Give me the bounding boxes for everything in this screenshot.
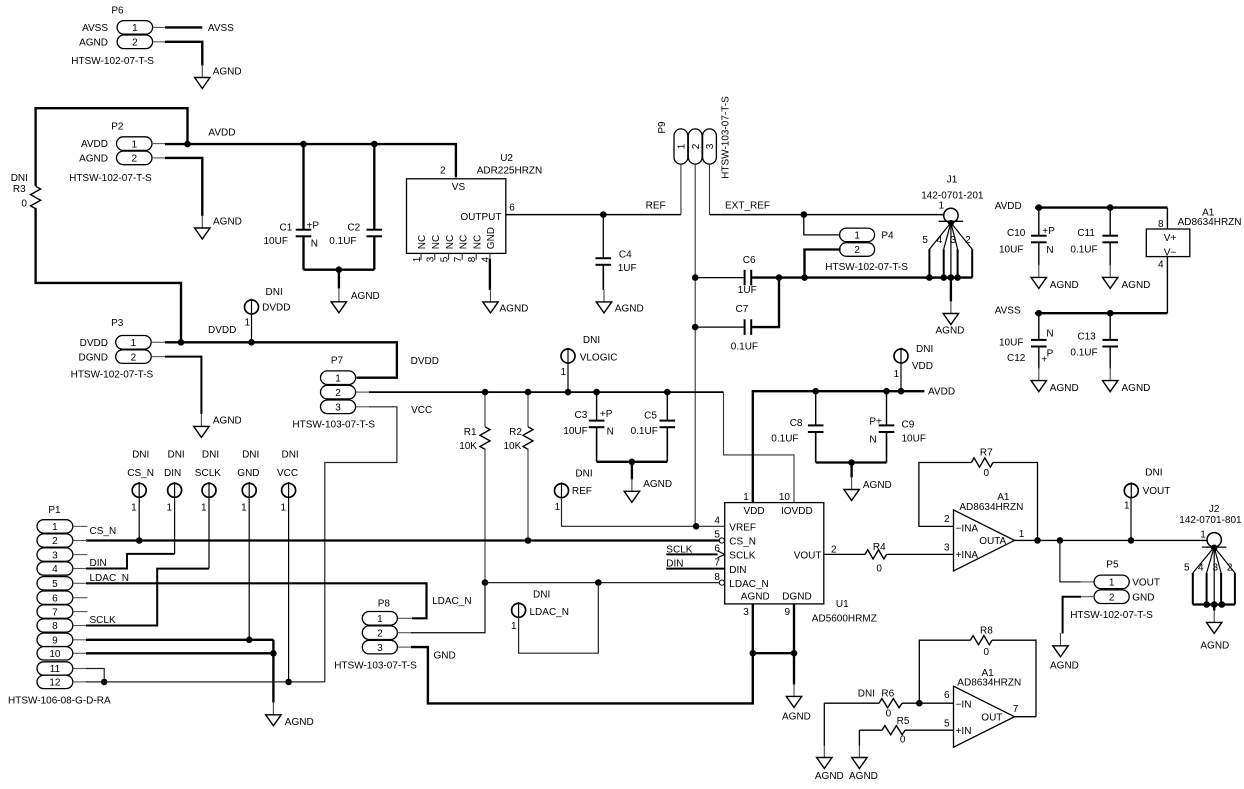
svg-text:DNI: DNI (132, 450, 149, 461)
svg-text:CS_N: CS_N (729, 537, 756, 548)
svg-text:DNI: DNI (167, 450, 184, 461)
svg-text:C1: C1 (280, 222, 293, 233)
svg-text:C4: C4 (619, 249, 632, 260)
svg-text:P7: P7 (331, 355, 344, 366)
ground AGND (P2) (201, 215, 203, 228)
resistor R4 0 (865, 542, 887, 575)
svg-text:10: 10 (49, 649, 61, 660)
junction R7/out (1034, 537, 1041, 544)
svg-text:HTSW-103-07-T-S: HTSW-103-07-T-S (721, 96, 732, 179)
svg-text:1: 1 (281, 502, 287, 513)
svg-text:HTSW-102-07-T-S: HTSW-102-07-T-S (71, 369, 154, 380)
svg-text:VS: VS (452, 182, 466, 193)
svg-text:VOUT: VOUT (794, 551, 822, 562)
wire P3 pin2 to ground (152, 356, 166, 358)
svg-text:NC: NC (431, 235, 442, 249)
svg-text:NC: NC (445, 235, 456, 249)
J1 bus junctions (926, 274, 933, 281)
wire U1 VOUT to R4 (824, 553, 865, 555)
test point REF (DNI) (554, 469, 592, 513)
svg-text:AGND: AGND (213, 67, 242, 78)
svg-text:5: 5 (439, 256, 450, 262)
svg-text:2: 2 (965, 235, 971, 246)
capacitor C7 0.1UF (695, 278, 779, 353)
svg-text:C5: C5 (644, 410, 657, 421)
svg-text:DVDD: DVDD (80, 338, 108, 349)
svg-text:8: 8 (467, 256, 478, 262)
svg-text:AGND: AGND (1122, 383, 1151, 394)
ground AGND (C1 C2) (338, 289, 340, 302)
wire U1 DGND pin (793, 604, 795, 653)
connector P5 (1070, 559, 1160, 621)
svg-text:VDD: VDD (912, 361, 933, 372)
svg-text:+P: +P (307, 220, 320, 231)
svg-text:AGND: AGND (351, 291, 380, 302)
junction REF/C6 (692, 274, 699, 281)
svg-text:C2: C2 (347, 222, 360, 233)
wire P9 pin2 down (REF to VREF) (694, 164, 696, 526)
svg-text:CS_N: CS_N (90, 526, 117, 537)
wire VCC TP stub (288, 497, 290, 682)
svg-text:9: 9 (784, 607, 790, 618)
svg-text:DNI: DNI (11, 173, 28, 184)
svg-text:N: N (1046, 245, 1053, 256)
svg-text:3: 3 (705, 143, 716, 149)
resistor R5 0 (859, 716, 953, 746)
svg-text:HTSW-102-07-T-S: HTSW-102-07-T-S (825, 262, 908, 273)
svg-text:C8: C8 (790, 418, 803, 429)
svg-text:1: 1 (167, 502, 173, 513)
svg-text:NC: NC (458, 235, 469, 249)
svg-text:8: 8 (52, 621, 58, 632)
wire VREF to U1 (696, 525, 725, 527)
junction C1/AVDD (300, 141, 307, 148)
wire CS_N TP stub (138, 497, 140, 540)
svg-text:1: 1 (335, 373, 341, 384)
connector P2 (69, 121, 152, 184)
ground AGND (C3 C5) (631, 478, 633, 491)
capacitor C2 0.1UF (329, 144, 382, 270)
svg-text:1: 1 (677, 143, 688, 149)
svg-text:0.1UF: 0.1UF (1070, 244, 1097, 255)
svg-text:VOUT: VOUT (1143, 486, 1171, 497)
svg-text:DGND: DGND (79, 352, 108, 363)
svg-text:3: 3 (743, 607, 749, 618)
svg-text:0.1UF: 0.1UF (631, 426, 658, 437)
connector J1 142-0701-201 (921, 175, 984, 223)
svg-text:C12: C12 (1007, 353, 1026, 364)
wire R5 to ground (858, 730, 860, 745)
connector P7 (292, 355, 375, 430)
svg-text:CS_N: CS_N (127, 468, 154, 479)
wire P5 pin1 to output (1060, 540, 1081, 582)
svg-text:R2: R2 (509, 427, 522, 438)
wire P8 pin3 GND to U1 ground (398, 646, 412, 648)
test point VLOGIC (DNI) (560, 335, 617, 392)
svg-text:C13: C13 (1077, 332, 1096, 343)
wire P1 pin11 (86, 669, 104, 682)
U1 LDAC_N pin bubble (719, 580, 724, 585)
junction R1/LDAC_N (482, 579, 489, 586)
wire P5 pin2 to ground (1080, 596, 1095, 598)
wire C8/C9 ground bus (816, 461, 887, 463)
svg-text:0.1UF: 0.1UF (771, 434, 798, 445)
ground AGND (C13) (1109, 368, 1111, 381)
svg-text:142-0701-201: 142-0701-201 (921, 190, 984, 201)
svg-text:1: 1 (938, 200, 944, 211)
wire LDAC_N TP loop (519, 583, 599, 654)
svg-text:3: 3 (52, 550, 58, 561)
svg-text:J1: J1 (947, 175, 958, 186)
ground AGND (P5) (1060, 633, 1062, 646)
svg-text:6: 6 (52, 593, 58, 604)
svg-text:1: 1 (131, 502, 137, 513)
svg-text:J2: J2 (1209, 504, 1220, 515)
wire LDAC_N to U1 pin8 (485, 582, 719, 584)
connector P1 HTSW-106-08-G-D-RA (8, 505, 111, 707)
junction pin10 gnd (270, 650, 277, 657)
junction C9/AVDD (883, 388, 890, 395)
U2 NC pins 1,3,5,7,8 and GND pin 4 (412, 227, 497, 262)
wire U1 AGND pin (752, 604, 754, 653)
connector P8 (334, 598, 417, 671)
connector P6 (71, 6, 154, 67)
wire OUT to R8 (1015, 716, 1037, 718)
svg-text:AD8634HRZN: AD8634HRZN (959, 502, 1023, 513)
svg-text:−INA: −INA (956, 523, 979, 534)
junction EXT_REF/P4 (801, 211, 808, 218)
svg-text:1: 1 (1200, 529, 1206, 540)
svg-text:AGND: AGND (863, 480, 892, 491)
J1 fan wires to pins 5,4,3,2 (922, 220, 972, 278)
svg-text:N: N (1046, 329, 1053, 340)
wire P7 pin3 VCC (356, 406, 370, 408)
svg-text:9: 9 (52, 636, 58, 647)
svg-text:AGND: AGND (285, 717, 314, 728)
op-amp reference U2 ADR225HRZN (407, 153, 543, 254)
svg-text:0: 0 (984, 647, 990, 658)
junction C7/bus (776, 274, 783, 281)
svg-text:VCC: VCC (277, 468, 298, 479)
svg-text:142-0701-801: 142-0701-801 (1179, 515, 1242, 526)
svg-text:1: 1 (893, 369, 899, 380)
svg-text:U2: U2 (500, 153, 513, 164)
svg-text:0: 0 (876, 564, 882, 575)
connector P9 (3-pin vertical) (657, 96, 732, 179)
op-amp A1 AD8634HRZN OUTA (944, 492, 1025, 571)
svg-text:SCLK: SCLK (729, 551, 755, 562)
svg-text:3: 3 (951, 235, 957, 246)
test point VDD (DNI) (893, 344, 933, 391)
svg-text:AVSS: AVSS (995, 305, 1021, 316)
svg-text:−IN: −IN (956, 700, 972, 711)
svg-text:DVDD: DVDD (208, 325, 236, 336)
svg-text:V−: V− (1164, 247, 1177, 258)
svg-text:10UF: 10UF (902, 434, 926, 445)
junction VDD TP (898, 388, 905, 395)
svg-text:10UF: 10UF (563, 426, 587, 437)
svg-text:GND: GND (1132, 592, 1154, 603)
resistor R3 (11, 173, 41, 210)
junction LDAC_N TP tie (595, 579, 602, 586)
svg-text:7: 7 (714, 558, 720, 569)
svg-text:2: 2 (691, 143, 702, 149)
svg-text:5: 5 (922, 235, 928, 246)
ground AGND (P6) (201, 65, 203, 78)
svg-text:R1: R1 (464, 427, 477, 438)
wire P6 pin1 to AVSS (153, 26, 166, 28)
svg-text:4: 4 (1158, 260, 1164, 271)
svg-text:1: 1 (412, 256, 423, 262)
svg-text:P+: P+ (869, 417, 882, 428)
svg-text:P4: P4 (881, 231, 894, 242)
resistor R2 10K (504, 392, 534, 540)
svg-text:R8: R8 (980, 625, 993, 636)
wire P1 gnd drop (272, 640, 274, 703)
wire REF TP to VREF (562, 498, 697, 527)
J2 fan wires to pins 5,4,3,2 (1184, 547, 1235, 604)
svg-text:VCC: VCC (411, 405, 432, 416)
svg-text:2: 2 (131, 352, 137, 363)
capacitor C6 1UF (695, 255, 757, 296)
test point DVDD (DNI) (244, 287, 290, 342)
svg-text:7: 7 (453, 256, 464, 262)
svg-text:6: 6 (944, 690, 950, 701)
svg-text:AGND: AGND (79, 38, 108, 49)
svg-text:8: 8 (1158, 219, 1164, 230)
svg-text:DNI: DNI (575, 469, 592, 480)
junction P4/bus (801, 274, 808, 281)
svg-text:P5: P5 (1106, 559, 1119, 570)
wire P4 pin2 to ground bus (805, 250, 841, 278)
svg-text:LDAC_N: LDAC_N (729, 579, 768, 590)
svg-text:2: 2 (335, 388, 341, 399)
wire P1 pin10 (86, 652, 273, 654)
wire OUTA output to J2 (1015, 539, 1207, 541)
svg-text:1: 1 (1109, 578, 1115, 589)
wire P3 pin1 / DVDD rail (152, 341, 166, 343)
svg-text:HTSW-103-07-T-S: HTSW-103-07-T-S (334, 660, 417, 671)
svg-text:+P: +P (1042, 226, 1055, 237)
svg-text:1: 1 (560, 367, 566, 378)
svg-text:DIN: DIN (90, 558, 107, 569)
svg-text:+P: +P (600, 409, 613, 420)
svg-text:AGND: AGND (500, 303, 529, 314)
svg-text:AGND: AGND (936, 325, 965, 336)
svg-text:REF: REF (572, 486, 592, 497)
svg-text:AD5600HRMZ: AD5600HRMZ (812, 613, 877, 624)
wire P1 pin12 VCC (86, 681, 325, 683)
svg-text:DNI: DNI (583, 335, 600, 346)
svg-text:2: 2 (831, 544, 837, 555)
svg-text:+: + (1041, 355, 1047, 366)
wire P9 pin3 down to EXT_REF (709, 164, 711, 215)
ground AGND (P3) (200, 413, 202, 426)
ground AGND (C11) (1109, 264, 1111, 277)
svg-text:R7: R7 (980, 447, 993, 458)
test point VOUT (DNI) (1124, 467, 1170, 540)
svg-text:R5: R5 (897, 716, 910, 727)
test point GND (DNI) (237, 450, 259, 514)
wire U2 GND pin to ground (489, 259, 491, 290)
svg-text:+IN: +IN (956, 726, 972, 737)
ground AGND (P1) (272, 702, 274, 715)
svg-text:AGND: AGND (643, 479, 672, 490)
ground AGND (U1) (793, 683, 795, 696)
svg-text:3: 3 (426, 256, 437, 262)
svg-text:12: 12 (49, 678, 61, 689)
svg-text:1: 1 (132, 23, 138, 34)
svg-text:VLOGIC: VLOGIC (580, 353, 618, 364)
svg-text:0: 0 (984, 468, 990, 479)
svg-text:2: 2 (1227, 563, 1233, 574)
svg-text:EXT_REF: EXT_REF (725, 200, 770, 211)
svg-text:0.1UF: 0.1UF (1070, 348, 1097, 359)
wire P4 pin1 to EXT_REF (804, 215, 840, 235)
svg-text:5: 5 (52, 579, 58, 590)
junction J1 pin1 (948, 220, 954, 226)
wire J2 to ground (1213, 605, 1215, 611)
svg-text:1: 1 (131, 338, 137, 349)
svg-text:3: 3 (1212, 563, 1218, 574)
connector P3 (71, 318, 154, 381)
svg-text:U1: U1 (836, 599, 849, 610)
wire AVDD rail to U1 VDD (753, 391, 925, 502)
svg-text:N: N (311, 239, 318, 250)
svg-text:2: 2 (854, 245, 860, 256)
svg-text:2: 2 (132, 38, 138, 49)
connector P4 (825, 228, 908, 273)
svg-text:3: 3 (944, 542, 950, 553)
DAC U1 AD5600HRMZ (714, 492, 876, 625)
svg-text:AGND: AGND (741, 592, 770, 603)
svg-text:AGND: AGND (1050, 661, 1079, 672)
svg-text:LDAC_N: LDAC_N (530, 607, 569, 618)
svg-text:1: 1 (244, 317, 250, 328)
ground AGND (J2) (1213, 610, 1215, 622)
wire CS_N from P1 pin2 (86, 539, 719, 541)
junction GND TP (246, 637, 253, 644)
svg-text:AVSS: AVSS (208, 23, 234, 34)
junction pin11/pin12 (101, 679, 108, 686)
ground AGND (C8 C9) (851, 477, 853, 490)
ground AGND (C4) (603, 289, 605, 302)
wire J2 ground bus (1193, 603, 1235, 605)
svg-text:P: P (1047, 349, 1054, 360)
svg-text:P1: P1 (48, 505, 61, 516)
resistor R6 0 (DNI) (824, 689, 953, 720)
junction C8C9 gnd (848, 459, 855, 466)
junction C1C2 gnd (336, 266, 343, 273)
capacitor C12 10UF (999, 313, 1054, 368)
svg-text:1: 1 (854, 231, 860, 242)
svg-text:C11: C11 (1077, 228, 1095, 239)
junction C2/AVDD (371, 141, 378, 148)
svg-text:NC: NC (472, 235, 483, 249)
test point LDAC_N (DNI) (511, 590, 569, 632)
svg-text:AVSS: AVSS (82, 23, 108, 34)
svg-text:C9: C9 (902, 420, 915, 431)
svg-text:C10: C10 (1007, 228, 1026, 239)
svg-text:0: 0 (886, 709, 892, 720)
wire P1 pin4 DIN to TP (86, 554, 175, 569)
svg-text:LDAC_N: LDAC_N (432, 596, 471, 607)
capacitor C11 0.1UF (1070, 208, 1118, 266)
svg-text:1: 1 (554, 502, 560, 513)
svg-text:10UF: 10UF (999, 338, 1023, 349)
svg-text:10: 10 (779, 492, 791, 503)
wire R6 to ground (823, 703, 825, 745)
svg-text:4: 4 (714, 515, 720, 526)
svg-text:0.1UF: 0.1UF (731, 341, 758, 352)
junction R2/VLOGIC (525, 389, 532, 396)
svg-text:DNI: DNI (281, 450, 298, 461)
junction P5/out (1057, 537, 1064, 544)
U1 CS_N pin bubble (719, 538, 724, 543)
svg-text:4: 4 (937, 235, 943, 246)
junction VLOGIC TP (565, 389, 572, 396)
svg-text:7: 7 (1013, 704, 1019, 715)
svg-text:7: 7 (52, 607, 58, 618)
ground AGND (C12) (1038, 368, 1040, 381)
svg-text:R3: R3 (13, 184, 26, 195)
svg-text:DGND: DGND (782, 592, 811, 603)
svg-text:3: 3 (335, 403, 341, 414)
wire U2 OUTPUT / REF net (506, 214, 681, 216)
svg-text:5: 5 (1184, 563, 1190, 574)
svg-text:2: 2 (944, 514, 950, 525)
junction C3C5 gnd (629, 459, 636, 466)
svg-text:SCLK: SCLK (195, 468, 221, 479)
wire U1 ground bus (753, 652, 794, 654)
wire P9 pin1 down to REF (680, 164, 682, 215)
wire C3/C5 ground bus (597, 461, 668, 463)
wire P1 pin5 LDAC_N (86, 583, 427, 618)
svg-text:P8: P8 (378, 598, 391, 609)
svg-text:DNI: DNI (202, 450, 219, 461)
svg-text:AGND: AGND (213, 217, 242, 228)
svg-text:1UF: 1UF (738, 285, 757, 296)
svg-text:N: N (869, 435, 876, 446)
svg-text:1: 1 (377, 614, 383, 625)
svg-text:VOUT: VOUT (1132, 578, 1160, 589)
svg-text:DIN: DIN (729, 565, 746, 576)
wire EXT_REF ground bus (751, 276, 972, 278)
svg-text:1: 1 (743, 492, 749, 503)
svg-text:1: 1 (1019, 529, 1025, 540)
svg-text:AVDD: AVDD (208, 127, 235, 138)
wire P7 pin2 VLOGIC rail (356, 391, 370, 393)
svg-text:DNI: DNI (858, 689, 875, 700)
svg-text:GND: GND (237, 468, 259, 479)
svg-text:1: 1 (241, 502, 247, 513)
junction REF/C7 (692, 324, 699, 331)
svg-text:C7: C7 (736, 304, 749, 315)
capacitor C9 10UF (869, 391, 926, 462)
ground AGND (R6) (823, 746, 825, 758)
wire DIN TP stub (174, 497, 176, 554)
svg-text:10K: 10K (504, 441, 522, 452)
svg-text:DNI: DNI (916, 344, 933, 355)
wire P6 pin2 to ground (153, 41, 166, 43)
svg-text:C6: C6 (743, 255, 756, 266)
svg-text:4: 4 (1198, 563, 1204, 574)
capacitor C1 10UF (264, 144, 320, 270)
wire R3 top to AVDD rail (36, 108, 188, 186)
svg-text:NC: NC (417, 235, 428, 249)
wire DGND to ground (793, 653, 795, 684)
svg-text:P6: P6 (111, 6, 124, 17)
